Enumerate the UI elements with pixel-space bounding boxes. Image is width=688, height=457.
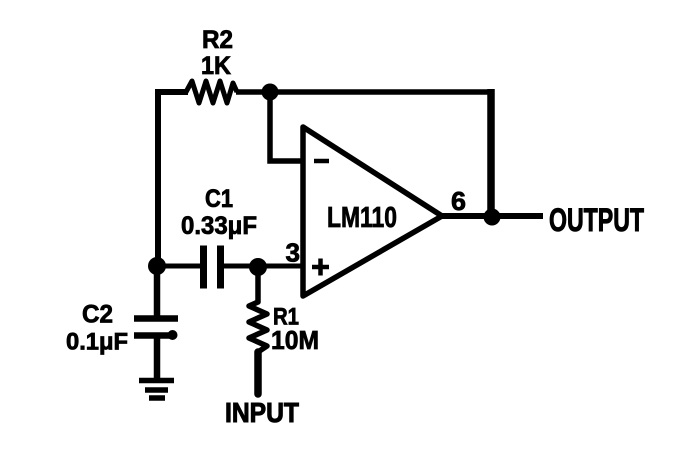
svg-text:OUTPUT: OUTPUT bbox=[549, 202, 644, 238]
svg-text:3: 3 bbox=[286, 238, 301, 268]
wire top rail from R2 to feedback corner bbox=[236, 89, 490, 95]
wire inverting input branch bbox=[270, 92, 303, 161]
resistor R2 bbox=[186, 81, 237, 103]
wire R1 to input terminal bbox=[254, 352, 262, 394]
svg-text:C2: C2 bbox=[82, 301, 113, 329]
svg-text:10M: 10M bbox=[271, 325, 319, 355]
op-amp U1 LM110 triangle bbox=[303, 127, 442, 296]
node A junction left rail bbox=[148, 257, 166, 275]
wire C1 right plate to pin 3 bbox=[220, 264, 303, 269]
node small blob at C2 lower plate end bbox=[168, 330, 178, 340]
svg-text:0.1μF: 0.1μF bbox=[66, 329, 128, 356]
node junction C1/R1 bbox=[249, 258, 267, 276]
ground bbox=[139, 381, 174, 399]
svg-text:6: 6 bbox=[451, 186, 466, 216]
wire C2 to ground bbox=[154, 338, 161, 380]
wire left vertical from top rail down to node A bbox=[158, 92, 188, 266]
capacitor C2 bbox=[134, 319, 178, 336]
wire output from op-amp apex bbox=[442, 213, 543, 219]
svg-text:INPUT: INPUT bbox=[225, 397, 299, 428]
wire node A to C1 left plate bbox=[157, 264, 203, 269]
wire node A down to C2 bbox=[154, 266, 161, 316]
svg-text:0.33μF: 0.33μF bbox=[181, 212, 257, 240]
capacitor C1 bbox=[204, 246, 221, 289]
resistor R1 bbox=[249, 267, 267, 356]
svg-text:C1: C1 bbox=[205, 185, 233, 213]
node junction R2/feedback bbox=[262, 84, 279, 101]
node output junction bbox=[484, 209, 501, 226]
wire feedback vertical down to output node bbox=[487, 89, 495, 217]
svg-text:1K: 1K bbox=[201, 52, 231, 80]
op-amp minus input symbol bbox=[314, 159, 329, 164]
svg-text:LM110: LM110 bbox=[327, 202, 397, 234]
op-amp plus input symbol bbox=[312, 259, 329, 276]
svg-text:R2: R2 bbox=[202, 26, 233, 54]
